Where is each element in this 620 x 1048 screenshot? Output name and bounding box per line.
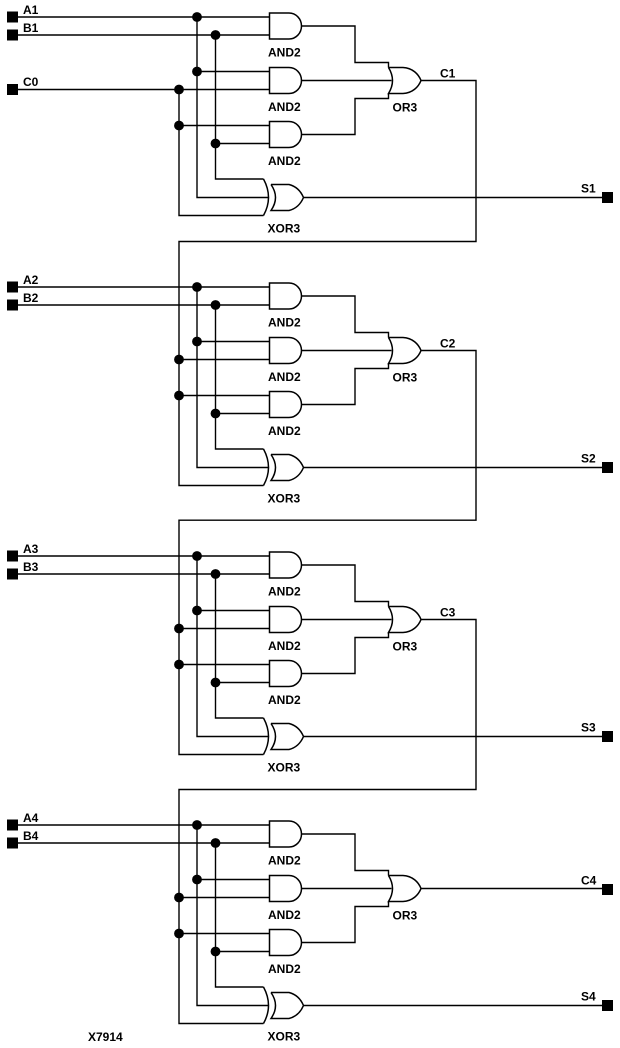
XOR3 gate leading arc — [264, 718, 269, 755]
wire C4 carry OR3 output to terminal — [421, 888, 602, 890]
svg-text:AND2: AND2 — [268, 585, 301, 599]
wire AND2 gate 2 output to OR3 middle input — [302, 350, 392, 352]
AND2 gate 3 of stage 1 — [270, 122, 302, 148]
OR3 gate of stage 1 — [389, 68, 422, 94]
junction B rail to gate 3 — [211, 139, 221, 149]
wire A4 input to AND2 gate 1 pin 1 — [18, 824, 270, 826]
wire C rail branch to AND2 gate 3 pin 1 — [179, 933, 270, 935]
svg-text:B2: B2 — [23, 291, 39, 305]
input terminal A1 — [7, 12, 18, 23]
svg-text:A2: A2 — [23, 273, 39, 287]
junction C rail to gate 3 — [174, 660, 184, 670]
AND2 gate 1 of stage 1 — [270, 13, 302, 39]
svg-text:C4: C4 — [581, 874, 597, 888]
junction B rail to gate 3 — [211, 947, 221, 957]
wire B1 vertical rail to XOR3 top input — [216, 35, 264, 179]
wire A1 input to AND2 gate 1 pin 1 — [18, 16, 270, 18]
input terminal A2 — [7, 282, 18, 293]
junction B rail to gate 3 — [211, 409, 221, 419]
junction B rail on B line — [211, 569, 221, 579]
wire B4 input to AND2 gate 1 pin 2 — [18, 842, 270, 844]
junction A rail on A line — [192, 820, 202, 830]
svg-text:AND2: AND2 — [268, 639, 301, 653]
svg-text:C1: C1 — [440, 67, 456, 81]
output terminal S3 — [602, 731, 613, 742]
wire C rail branch to AND2 gate 3 pin 1 — [179, 664, 270, 666]
svg-text:S4: S4 — [581, 990, 596, 1004]
svg-text:S1: S1 — [581, 182, 596, 196]
input terminal B1 — [7, 30, 18, 41]
XOR3 gate leading arc — [264, 179, 269, 216]
input terminal C0 — [7, 84, 18, 95]
wire A rail branch to AND2 gate 2 pin 1 — [197, 610, 270, 612]
wire B1 input to AND2 gate 1 pin 2 — [18, 34, 270, 36]
svg-text:XOR3: XOR3 — [268, 761, 301, 775]
svg-text:AND2: AND2 — [268, 962, 301, 976]
svg-text:AND2: AND2 — [268, 154, 301, 168]
AND2 gate 1 of stage 2 — [270, 283, 302, 309]
wire B3 input to AND2 gate 1 pin 2 — [18, 573, 270, 575]
svg-text:A3: A3 — [23, 542, 39, 556]
svg-text:XOR3: XOR3 — [268, 492, 301, 506]
svg-text:X7914: X7914 — [88, 1030, 123, 1044]
AND2 gate 2 of stage 3 — [270, 607, 302, 633]
AND2 gate 2 of stage 4 — [270, 876, 302, 902]
junction A rail on A line — [192, 282, 202, 292]
wire A rail branch to AND2 gate 2 pin 1 — [197, 879, 270, 881]
svg-text:C2: C2 — [440, 337, 456, 351]
wire AND2 gate 1 output to OR3 top input — [302, 296, 389, 338]
wire AND2 gate 2 output to OR3 middle input — [302, 888, 392, 890]
wire C0 vertical rail to XOR3 bottom input — [179, 90, 264, 216]
wire C rail branch to AND2 gate 3 pin 1 — [179, 125, 270, 127]
svg-text:OR3: OR3 — [393, 640, 418, 654]
wire C1 carry OR3 output routed down to stage 2 C rail — [179, 81, 476, 486]
svg-text:C3: C3 — [440, 606, 456, 620]
OR3 gate of stage 3 — [389, 607, 422, 633]
wire A3 vertical rail to XOR3 middle input — [197, 556, 269, 737]
wire B rail branch to AND2 gate 3 pin 2 — [216, 682, 270, 684]
wire AND2 gate 3 output to OR3 bottom input — [302, 633, 389, 674]
wire C0 input to AND2 gate 2 pin 2 — [18, 89, 270, 91]
wire C rail branch to AND2 gate 3 pin 1 — [179, 395, 270, 397]
svg-text:AND2: AND2 — [268, 46, 301, 60]
AND2 gate 3 of stage 4 — [270, 930, 302, 956]
svg-text:B3: B3 — [23, 560, 39, 574]
wire AND2 gate 1 output to OR3 top input — [302, 834, 389, 876]
wire A2 input to AND2 gate 1 pin 1 — [18, 286, 270, 288]
wire A rail branch to AND2 gate 2 pin 1 — [197, 71, 270, 73]
wire AND2 gate 3 output to OR3 bottom input — [302, 94, 389, 135]
svg-text:AND2: AND2 — [268, 370, 301, 384]
junction B rail to gate 3 — [211, 678, 221, 688]
svg-text:S3: S3 — [581, 721, 596, 735]
svg-text:C0: C0 — [23, 75, 39, 89]
wire A4 vertical rail to XOR3 middle input — [197, 825, 269, 1006]
input terminal B4 — [7, 838, 18, 849]
junction B rail on B line — [211, 30, 221, 40]
AND2 gate 1 of stage 3 — [270, 552, 302, 578]
junction C rail on C line — [174, 355, 184, 365]
svg-text:AND2: AND2 — [268, 100, 301, 114]
wire A1 vertical rail to XOR3 middle input — [197, 17, 269, 198]
wire AND2 gate 1 output to OR3 top input — [302, 565, 389, 607]
junction A rail to gate 2 — [192, 875, 202, 885]
wire carry-in to AND2 gate 2 pin 2 — [179, 359, 270, 361]
XOR3 gate of stage 1 — [271, 185, 304, 211]
wire B rail branch to AND2 gate 3 pin 2 — [216, 951, 270, 953]
svg-text:S2: S2 — [581, 452, 596, 466]
svg-text:OR3: OR3 — [393, 371, 418, 385]
input terminal A4 — [7, 820, 18, 831]
wire B2 input to AND2 gate 1 pin 2 — [18, 304, 270, 306]
junction C rail to gate 3 — [174, 121, 184, 131]
junction A rail to gate 2 — [192, 606, 202, 616]
junction B rail on B line — [211, 838, 221, 848]
svg-text:A4: A4 — [23, 811, 39, 825]
junction C rail to gate 3 — [174, 391, 184, 401]
input terminal B2 — [7, 300, 18, 311]
junction A rail to gate 2 — [192, 67, 202, 77]
output terminal S4 — [602, 1000, 613, 1011]
AND2 gate 1 of stage 4 — [270, 821, 302, 847]
wire XOR3 output to S4 terminal — [304, 1005, 603, 1007]
svg-text:B1: B1 — [23, 21, 39, 35]
wire B4 vertical rail to XOR3 top input — [216, 843, 264, 987]
junction B rail on B line — [211, 300, 221, 310]
svg-text:XOR3: XOR3 — [268, 222, 301, 236]
junction A rail on A line — [192, 551, 202, 561]
junction C rail to gate 3 — [174, 929, 184, 939]
wire AND2 gate 2 output to OR3 middle input — [302, 619, 392, 621]
input terminal B3 — [7, 569, 18, 580]
output terminal C4 — [602, 884, 613, 895]
wire C2 carry OR3 output routed down to stage 3 C rail — [179, 351, 476, 755]
wire AND2 gate 2 output to OR3 middle input — [302, 80, 392, 82]
wire XOR3 output to S2 terminal — [304, 467, 603, 469]
XOR3 gate leading arc — [264, 449, 269, 486]
AND2 gate 2 of stage 2 — [270, 338, 302, 364]
wire B3 vertical rail to XOR3 top input — [216, 574, 264, 718]
svg-text:AND2: AND2 — [268, 424, 301, 438]
XOR3 gate of stage 3 — [271, 724, 304, 750]
junction A rail on A line — [192, 12, 202, 22]
wire carry-in to AND2 gate 2 pin 2 — [179, 897, 270, 899]
svg-text:OR3: OR3 — [393, 101, 418, 115]
wire A2 vertical rail to XOR3 middle input — [197, 287, 269, 468]
svg-text:AND2: AND2 — [268, 908, 301, 922]
output terminal S1 — [602, 192, 613, 203]
svg-text:OR3: OR3 — [393, 909, 418, 923]
svg-text:XOR3: XOR3 — [268, 1030, 301, 1044]
svg-text:AND2: AND2 — [268, 854, 301, 868]
input terminal A3 — [7, 551, 18, 562]
wire AND2 gate 1 output to OR3 top input — [302, 26, 389, 68]
wire XOR3 output to S3 terminal — [304, 736, 603, 738]
AND2 gate 3 of stage 2 — [270, 392, 302, 418]
XOR3 gate of stage 2 — [271, 455, 304, 481]
junction C rail on C line — [174, 624, 184, 634]
wire AND2 gate 3 output to OR3 bottom input — [302, 902, 389, 943]
svg-text:B4: B4 — [23, 829, 39, 843]
AND2 gate 3 of stage 3 — [270, 661, 302, 687]
wire B rail branch to AND2 gate 3 pin 2 — [216, 143, 270, 145]
XOR3 gate leading arc — [264, 987, 269, 1024]
wire AND2 gate 3 output to OR3 bottom input — [302, 364, 389, 405]
wire C3 carry OR3 output routed down to stage 4 C rail — [179, 620, 476, 1024]
svg-text:A1: A1 — [23, 3, 39, 17]
wire A rail branch to AND2 gate 2 pin 1 — [197, 341, 270, 343]
junction A rail to gate 2 — [192, 337, 202, 347]
junction C rail on C line — [174, 893, 184, 903]
OR3 gate of stage 4 — [389, 876, 422, 902]
wire B rail branch to AND2 gate 3 pin 2 — [216, 413, 270, 415]
XOR3 gate of stage 4 — [271, 993, 304, 1019]
AND2 gate 2 of stage 1 — [270, 68, 302, 94]
wire B2 vertical rail to XOR3 top input — [216, 305, 264, 449]
wire carry-in to AND2 gate 2 pin 2 — [179, 628, 270, 630]
junction C rail on C line — [174, 85, 184, 95]
wire A3 input to AND2 gate 1 pin 1 — [18, 555, 270, 557]
OR3 gate of stage 2 — [389, 338, 422, 364]
wire XOR3 output to S1 terminal — [304, 197, 603, 199]
output terminal S2 — [602, 462, 613, 473]
svg-text:AND2: AND2 — [268, 316, 301, 330]
svg-text:AND2: AND2 — [268, 693, 301, 707]
